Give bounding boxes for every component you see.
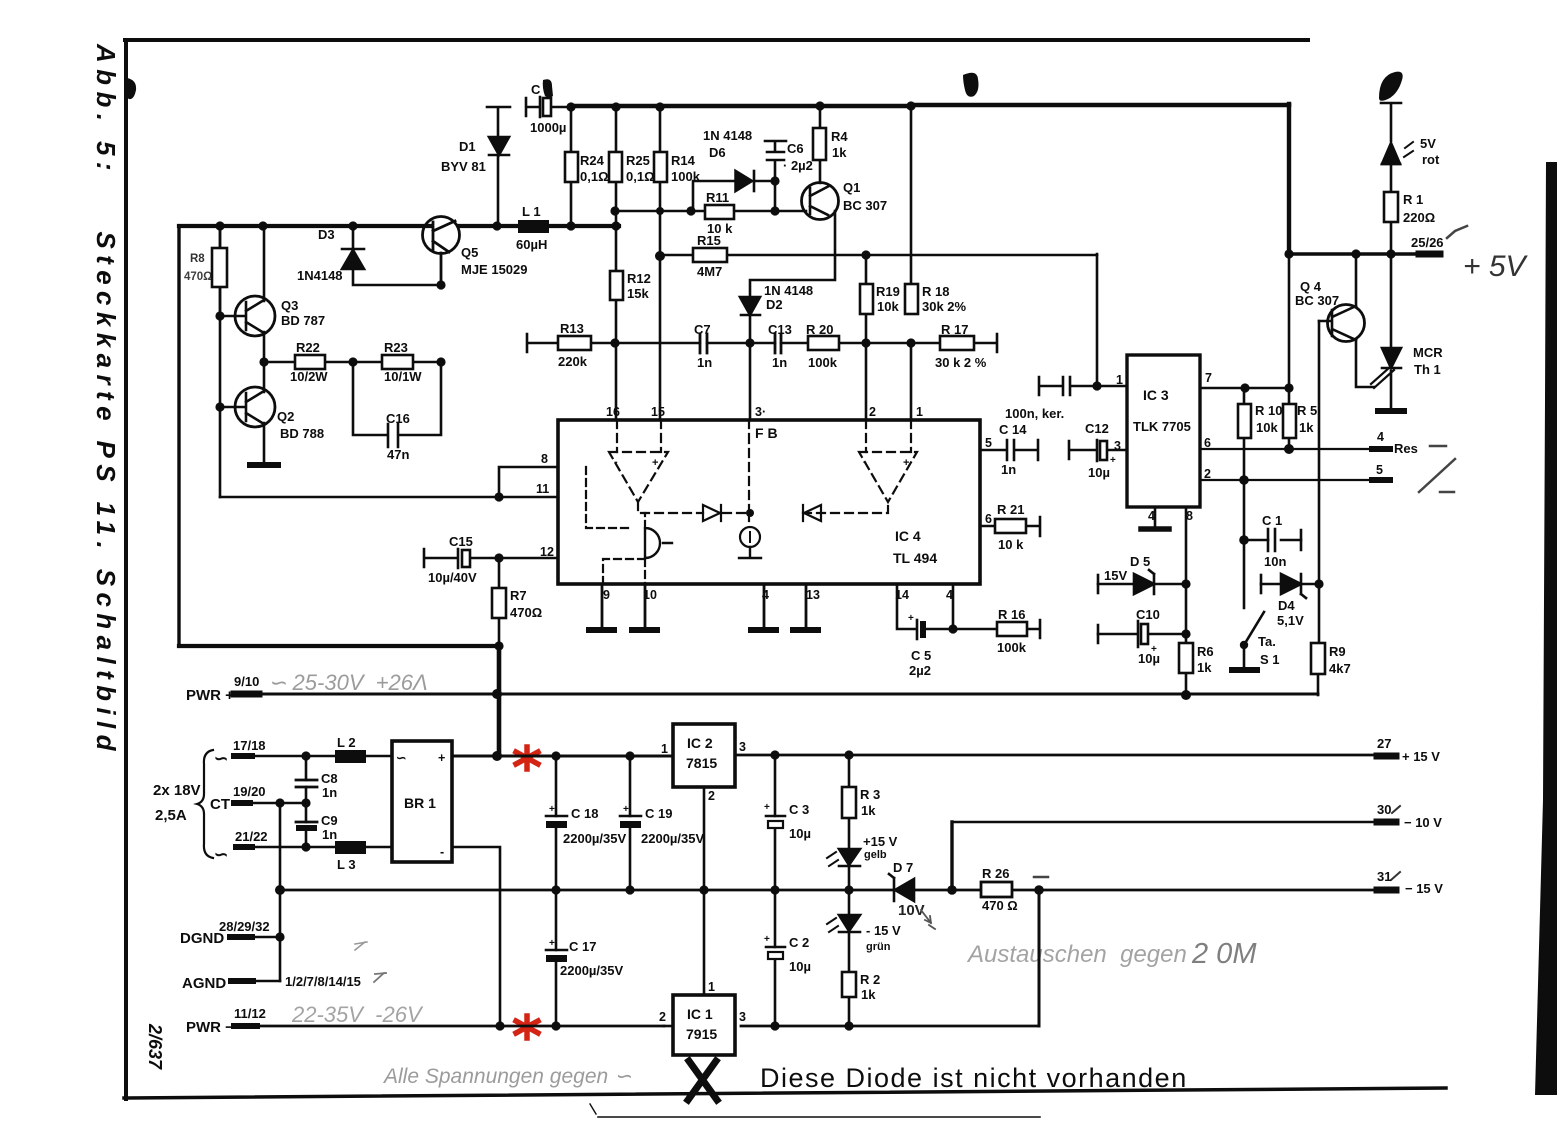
switch S1 Taster — [1244, 612, 1264, 669]
op-amp error amp 2 dashed — [859, 420, 917, 502]
svg-text:470Ω: 470Ω — [510, 605, 542, 620]
pin tick PWR+ — [234, 691, 259, 698]
svg-text:1000µ: 1000µ — [530, 120, 566, 135]
svg-text:C 17: C 17 — [569, 939, 596, 954]
svg-text:30: 30 — [1377, 802, 1391, 817]
svg-text:1k: 1k — [832, 145, 847, 160]
port AGND — [231, 978, 253, 984]
svg-text:1k: 1k — [1197, 660, 1212, 675]
diode D1 BYV81 — [487, 107, 510, 226]
wire BR1 plus output — [452, 755, 556, 758]
svg-text:∽: ∽ — [396, 751, 406, 765]
inductor L1 60uH — [518, 220, 549, 233]
svg-text:100k: 100k — [997, 640, 1027, 655]
capacitor C6 2u2 — [765, 141, 786, 181]
svg-text:7: 7 — [1205, 371, 1212, 385]
wire LED2 R2 branch — [848, 890, 851, 1026]
svg-text:-: - — [863, 456, 867, 468]
internal ground — [739, 547, 761, 558]
resistor R4 1k — [813, 106, 826, 183]
zener D4 5.1V — [1261, 574, 1306, 598]
wire IC3 pin2 line to pad5 — [1200, 479, 1372, 481]
svg-text:Q1: Q1 — [843, 180, 860, 195]
node dots — [275, 689, 505, 1031]
transistor Q3 BD787 — [220, 226, 275, 362]
resistor R21 10k on pin6 — [980, 517, 1040, 536]
capacitor C8 1n — [296, 780, 317, 787]
wire IC3 pin8 drop — [1185, 507, 1188, 643]
svg-text:17/18: 17/18 — [233, 738, 266, 753]
svg-text:1n: 1n — [772, 355, 787, 370]
svg-text:+: + — [764, 802, 770, 813]
svg-text:+: + — [908, 613, 914, 624]
handwritten slash at pin31 — [1391, 872, 1400, 880]
wire pin16 drop — [615, 343, 618, 420]
handwritten checkmark 25/26 — [1447, 226, 1467, 238]
svg-text:D6: D6 — [709, 145, 726, 160]
diode D3 1N4148 — [342, 226, 441, 285]
svg-text:BD 788: BD 788 — [280, 426, 324, 441]
wire ground rail center — [556, 889, 894, 892]
internal output transistor dashed — [586, 467, 645, 584]
border frame left — [124, 40, 128, 1099]
capacitor 100n ker on pin1 — [1039, 377, 1127, 395]
wire to IC4 pin11 — [220, 496, 558, 499]
wire pin2 drop — [865, 343, 868, 420]
svg-text:∽ 25-30V +26Λ: ∽ 25-30V +26Λ — [268, 670, 428, 695]
wire R9 to PWR+ corner — [1317, 674, 1320, 695]
svg-text:1k: 1k — [861, 803, 876, 818]
wire C2 branch — [774, 890, 777, 1026]
svg-text:16: 16 — [606, 405, 620, 419]
wire IC1 output rail — [741, 1025, 1039, 1028]
svg-text:R 21: R 21 — [997, 502, 1024, 517]
svg-text:BC 307: BC 307 — [843, 198, 887, 213]
svg-text:Q 4: Q 4 — [1300, 279, 1322, 294]
svg-text:15: 15 — [651, 405, 665, 419]
border frame top — [125, 38, 1308, 42]
svg-text:+ 15 V: + 15 V — [1402, 749, 1440, 764]
wire top rail thick right run — [911, 103, 1289, 108]
wire CT line — [250, 802, 306, 805]
svg-text:R22: R22 — [296, 340, 320, 355]
resistor R15 4M7 — [693, 248, 727, 262]
wire ground rail to -15V pad — [914, 889, 1375, 892]
border frame bottom — [124, 1088, 1446, 1098]
inductor L3 — [335, 841, 366, 854]
wire to IC4 pin8 — [499, 467, 558, 497]
svg-text:TL 494: TL 494 — [893, 550, 937, 566]
wire C13 R20 line — [615, 342, 911, 345]
handwritten arrow at D7 — [921, 910, 935, 929]
svg-text:21/22: 21/22 — [235, 829, 268, 844]
wire top rail — [571, 104, 911, 108]
wire R10 bottom to pin2 — [1243, 438, 1246, 480]
ground pin10 — [644, 584, 647, 629]
LED flame blob — [1379, 72, 1403, 101]
internal transistor arc — [645, 528, 672, 558]
svg-text:15k: 15k — [627, 286, 649, 301]
svg-text:100n, ker.: 100n, ker. — [1005, 406, 1064, 421]
svg-text:2µ2: 2µ2 — [909, 663, 931, 678]
svg-text:3: 3 — [739, 1010, 746, 1024]
svg-text:C 2: C 2 — [789, 935, 809, 950]
wire IC1 input rail — [664, 1025, 673, 1028]
svg-text:DGND: DGND — [180, 930, 224, 947]
wire D5 lead — [1098, 583, 1186, 586]
svg-text:− 10 V: − 10 V — [1404, 815, 1442, 830]
svg-text:9/10: 9/10 — [234, 674, 259, 689]
svg-text:470 Ω: 470 Ω — [982, 898, 1018, 913]
resistor R17 30k2 — [940, 336, 974, 350]
svg-text:R8: R8 — [190, 253, 205, 265]
svg-text:1n: 1n — [1001, 462, 1016, 477]
wire C19 branch — [629, 756, 632, 890]
resistor R1 220ohm — [1384, 192, 1398, 222]
wire D4 lead — [1261, 583, 1319, 586]
svg-text:10/2W: 10/2W — [290, 369, 328, 384]
svg-text:C: C — [531, 82, 541, 97]
scan blob above top rail — [963, 73, 979, 97]
wire L1 output — [549, 224, 619, 228]
svg-text:6: 6 — [1204, 436, 1211, 450]
wire BR1 minus to PWR- — [452, 847, 500, 1026]
svg-text:+: + — [1151, 644, 1157, 655]
svg-text:60µH: 60µH — [516, 237, 547, 252]
svg-text:+: + — [764, 934, 770, 945]
red asterisk lower — [516, 1016, 538, 1038]
wire BR1+ to IC2 input — [556, 755, 673, 758]
svg-text:+: + — [652, 457, 658, 469]
pin tick 25/26 — [1419, 251, 1440, 258]
scan blob near C2 label — [543, 79, 553, 97]
svg-text:4k7: 4k7 — [1329, 661, 1351, 676]
svg-text:2: 2 — [1204, 467, 1211, 481]
svg-text:11/12: 11/12 — [234, 1006, 266, 1021]
LED +15V gelb — [827, 849, 860, 866]
svg-text:R 5: R 5 — [1297, 403, 1317, 418]
svg-text:rot: rot — [1422, 152, 1440, 167]
svg-text:9: 9 — [603, 588, 610, 602]
svg-text:1: 1 — [708, 980, 715, 994]
capacitor C14 1n on pin5 — [980, 440, 1038, 460]
svg-text:10k: 10k — [1256, 420, 1278, 435]
capacitor C2 1000u — [526, 97, 571, 117]
svg-text:10/1W: 10/1W — [384, 369, 422, 384]
transistor Q5 MJE15029 — [423, 217, 460, 286]
svg-text:3: 3 — [739, 740, 746, 754]
handwritten tick dgnd — [355, 942, 367, 950]
wire thyristor drop — [1390, 254, 1393, 410]
capacitor C10 10u — [1098, 621, 1148, 647]
resistor R18 30k — [905, 284, 918, 314]
svg-text:+: + — [549, 804, 555, 815]
svg-text:-: - — [440, 845, 444, 859]
wire PWR- rail left — [237, 1025, 664, 1028]
svg-text:15V: 15V — [1104, 568, 1127, 583]
svg-text:1N4148: 1N4148 — [297, 268, 343, 283]
wire R18 top drop — [910, 106, 913, 284]
svg-text:Austauschen gegen: Austauschen gegen — [966, 941, 1187, 968]
transistor Q2 BD788 — [220, 362, 275, 464]
svg-text:R13: R13 — [560, 321, 584, 336]
pad 5 — [1372, 477, 1390, 483]
svg-text:1k: 1k — [1299, 420, 1314, 435]
wire R17 lead — [911, 334, 997, 352]
wire bottom feedback run — [179, 644, 499, 648]
svg-text:D 5: D 5 — [1130, 554, 1150, 569]
pin tick 17/18 — [234, 753, 252, 759]
internal source circle — [746, 509, 754, 517]
wire C3 branch — [774, 755, 777, 890]
wire feed to pin7 node — [1288, 254, 1291, 388]
pad Res — [1372, 446, 1390, 452]
wire -15V riser — [1038, 890, 1041, 1026]
diode D6 1N4148 — [735, 170, 753, 192]
wire feedback drop to BR1 plus — [497, 646, 502, 756]
svg-text:R 10: R 10 — [1255, 403, 1282, 418]
wire Q4 base to R9 — [1318, 584, 1321, 643]
ground pin9 — [589, 584, 614, 630]
resistor R13 220k — [527, 334, 616, 352]
thyristor MCR Th1 — [1371, 348, 1401, 388]
wire CT ground drop — [279, 803, 282, 890]
svg-text:1k: 1k — [861, 987, 876, 1002]
resistor R20 100k — [808, 336, 839, 350]
resistor R19 10k — [860, 255, 873, 343]
svg-text:30k 2%: 30k 2% — [922, 299, 967, 314]
svg-text:C8: C8 — [321, 771, 338, 786]
capacitor C5 2u2 on pin14 — [897, 584, 953, 639]
svg-text:R14: R14 — [671, 153, 696, 168]
svg-text:11: 11 — [536, 482, 549, 496]
svg-text:L 2: L 2 — [337, 735, 356, 750]
capacitor C16 47n — [353, 362, 441, 447]
svg-text:C10: C10 — [1136, 607, 1160, 622]
ground pin4 — [763, 584, 766, 629]
wire Q5 emitter to L1 — [459, 224, 518, 228]
svg-text:R7: R7 — [510, 588, 527, 603]
svg-text:Abb. 5: Steckkarte PS 11. S: Abb. 5: Steckkarte PS 11. Schaltbild — [91, 43, 121, 757]
op-amp IC4 TL494 box — [558, 420, 980, 584]
svg-text:C 5: C 5 — [911, 648, 931, 663]
svg-text:2/637: 2/637 — [145, 1023, 165, 1070]
node dots — [551, 750, 1043, 1030]
ground IC3 pin4 — [1154, 507, 1157, 528]
svg-text:10µ: 10µ — [789, 826, 811, 841]
wire main collector rail y=226 — [179, 224, 431, 228]
wire sense corner down to IC3 pin1 — [1096, 254, 1099, 386]
wire Q4 base drop — [1318, 321, 1321, 584]
red asterisk upper — [516, 747, 538, 769]
inductor L2 — [335, 750, 366, 763]
svg-text:1n: 1n — [322, 827, 337, 842]
svg-text:C13: C13 — [768, 322, 792, 337]
svg-text:BR 1: BR 1 — [404, 795, 436, 811]
svg-text:C 19: C 19 — [645, 806, 672, 821]
resistor R11 10k — [705, 205, 734, 219]
svg-text:R4: R4 — [831, 129, 848, 144]
svg-text:Q3: Q3 — [281, 298, 298, 313]
svg-text:3·: 3· — [755, 405, 766, 419]
svg-text:IC 1: IC 1 — [687, 1006, 713, 1022]
svg-text:C7: C7 — [694, 322, 711, 337]
svg-text:R9: R9 — [1329, 644, 1346, 659]
svg-text:4: 4 — [1377, 430, 1384, 444]
resistor R10 10k — [1238, 388, 1251, 438]
svg-text:C12: C12 — [1085, 421, 1109, 436]
node dots — [566, 101, 915, 347]
resistor R24 0.1ohm — [565, 107, 578, 226]
svg-text:R6: R6 — [1197, 644, 1214, 659]
svg-text:8: 8 — [1186, 509, 1193, 523]
node dots — [1092, 249, 1395, 700]
svg-text:C 1: C 1 — [1262, 513, 1282, 528]
wire D6 loop — [693, 181, 775, 211]
resistor R16 100k — [953, 620, 1040, 638]
svg-text:L 3: L 3 — [337, 857, 356, 872]
svg-text:∽: ∽ — [214, 749, 228, 768]
svg-text:22-35V -26V: 22-35V -26V — [291, 1002, 424, 1027]
svg-text:2: 2 — [869, 405, 876, 419]
handwritten slash at pin30 — [1392, 806, 1400, 813]
capacitor C15 10u/40V on pin12 — [424, 549, 558, 568]
wire R5 bottom to pin6 — [1288, 438, 1291, 449]
wire IC2 output +15V rail — [735, 754, 1377, 757]
svg-text:+: + — [1110, 455, 1116, 466]
svg-text:2: 2 — [708, 789, 715, 803]
resistor R8 — [212, 226, 227, 316]
svg-text:1: 1 — [661, 742, 668, 756]
svg-text:28/29/32: 28/29/32 — [219, 919, 270, 934]
pad 30 -10V — [1377, 819, 1396, 826]
wire +5V feed drop — [1287, 104, 1291, 254]
capacitor C2 10u — [766, 946, 785, 949]
svg-text:1N 4148: 1N 4148 — [764, 283, 813, 298]
wire C18 branch — [555, 756, 558, 890]
transistor Q1 BC307 — [802, 183, 839, 220]
port DGND — [230, 934, 252, 940]
wire C10 lead — [1098, 633, 1186, 636]
wire base chain vertical x=220 — [219, 226, 222, 497]
svg-text:R 18: R 18 — [922, 284, 949, 299]
svg-text:Q5: Q5 — [461, 245, 478, 260]
svg-text:R24: R24 — [580, 153, 605, 168]
wire C8 C9 branch vertical — [305, 756, 308, 847]
svg-text:BC 307: BC 307 — [1295, 293, 1339, 308]
scan blob on left border — [125, 78, 136, 99]
pin tick 19/20 CT — [234, 800, 250, 806]
internal diode 2 — [803, 505, 821, 521]
svg-text:IC 4: IC 4 — [895, 528, 921, 544]
svg-text:470Ω: 470Ω — [184, 271, 212, 283]
regulator IC2 7815 — [673, 724, 735, 787]
svg-text:D2: D2 — [766, 297, 783, 312]
svg-text:220k: 220k — [558, 354, 588, 369]
transformer brace — [197, 750, 213, 858]
wire +5V rail — [1289, 252, 1419, 255]
wire left feedback loop vertical — [177, 226, 180, 646]
wire ground rail left — [280, 889, 556, 892]
wire pin2 node to C1 and switch — [1243, 480, 1246, 608]
svg-text:R 3: R 3 — [860, 787, 880, 802]
wire Q4 emitter — [1355, 254, 1358, 305]
svg-text:100k: 100k — [808, 355, 838, 370]
resistor R14 100k — [654, 152, 667, 182]
handwritten marks near Res — [1430, 445, 1446, 448]
resistor R9 4k7 — [1311, 643, 1325, 674]
svg-text:30 k 2 %: 30 k 2 % — [935, 355, 987, 370]
capacitor C17 2200u — [546, 949, 567, 952]
svg-text:Res: Res — [1394, 441, 1418, 456]
svg-text:R 17: R 17 — [941, 322, 968, 337]
svg-text:+: + — [438, 751, 445, 765]
svg-text:IC 2: IC 2 — [687, 735, 713, 751]
svg-text:2,5A: 2,5A — [155, 807, 187, 824]
svg-text:2200µ/35V: 2200µ/35V — [641, 831, 704, 846]
regulator IC1 7915 — [673, 995, 735, 1055]
pad 31 -15V — [1377, 887, 1396, 894]
wire pin3 drop — [749, 343, 752, 420]
svg-text:BD 787: BD 787 — [281, 313, 325, 328]
svg-text:TLK 7705: TLK 7705 — [1133, 419, 1191, 434]
svg-text:1n: 1n — [697, 355, 712, 370]
svg-text:PWR −: PWR − — [186, 1019, 234, 1036]
svg-text:R15: R15 — [697, 233, 721, 248]
svg-text:25/26: 25/26 — [1411, 235, 1444, 250]
svg-text:R19: R19 — [876, 284, 900, 299]
resistor R3 1k — [842, 787, 856, 818]
svg-text:AGND: AGND — [182, 975, 226, 992]
svg-text:10n: 10n — [1264, 554, 1286, 569]
svg-text:10µ/40V: 10µ/40V — [428, 570, 477, 585]
svg-text:D1: D1 — [459, 139, 476, 154]
svg-text:C 14: C 14 — [999, 422, 1027, 437]
resistor R2 1k — [842, 972, 856, 997]
svg-text:- 15 V: - 15 V — [866, 923, 901, 938]
svg-text:R 2: R 2 — [860, 972, 880, 987]
wire PWR+ rail — [237, 693, 1318, 696]
internal diode 1 — [703, 505, 721, 521]
svg-text:+: + — [903, 457, 909, 469]
capacitor C1 10n — [1268, 529, 1301, 551]
resistor R26 470ohm — [981, 882, 1012, 897]
svg-text:5: 5 — [1376, 463, 1383, 477]
node dots — [215, 221, 620, 501]
resistor R23 10/1W — [353, 355, 441, 369]
svg-text:D3: D3 — [318, 227, 335, 242]
bridge rectifier BR1 — [392, 741, 452, 862]
svg-text:1/2/7/8/14/15: 1/2/7/8/14/15 — [285, 974, 361, 989]
port PWR- — [234, 1023, 257, 1029]
svg-text:8: 8 — [541, 452, 548, 466]
svg-text:2200µ/35V: 2200µ/35V — [560, 963, 623, 978]
wire -10V drop — [950, 822, 953, 890]
capacitor C9 1n — [296, 821, 317, 824]
svg-text:10µ: 10µ — [1088, 465, 1110, 480]
svg-text:R 26: R 26 — [982, 866, 1009, 881]
pad 27 +15V — [1377, 753, 1396, 760]
capacitor C7 1n — [700, 334, 707, 353]
svg-text:Th 1: Th 1 — [1414, 362, 1441, 377]
LED 5V rot — [1381, 103, 1413, 164]
resistor R25 0.1ohm — [609, 107, 622, 271]
svg-text:C6: C6 — [787, 141, 804, 156]
wire DGND drop — [279, 890, 282, 981]
black X mark — [688, 1061, 717, 1100]
svg-text:19/20: 19/20 — [233, 784, 266, 799]
wire pin1 drop — [910, 343, 913, 420]
